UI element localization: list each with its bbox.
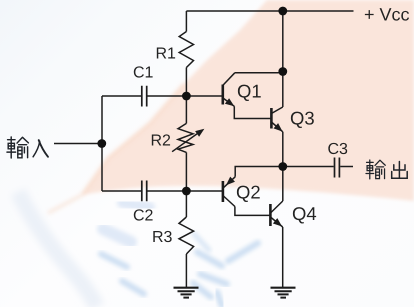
wire: top rail bbox=[186, 10, 353, 12]
resistor R2 (variable) bbox=[178, 123, 193, 152]
Q4 emitter arrow bbox=[273, 218, 282, 226]
wire: node to Q2 base bbox=[186, 190, 222, 192]
peach swoosh background bbox=[82, 0, 414, 201]
transistor Q3 bbox=[270, 108, 273, 129]
ground (right, under Q4) bbox=[271, 288, 296, 298]
CJK glyph 輸 (output) bbox=[366, 160, 385, 179]
arrowheads bbox=[195, 98, 283, 226]
CJK glyph 入 (input) bbox=[33, 140, 48, 157]
svg-text:+ Vcc: + Vcc bbox=[364, 5, 410, 25]
wire: R2 top lead bbox=[185, 96, 187, 123]
capacitor C3 bbox=[335, 158, 340, 178]
junction node: C2/R2/R3 bbox=[182, 187, 191, 196]
svg-text:R1: R1 bbox=[156, 46, 177, 63]
CJK glyph 輸 (input) bbox=[7, 137, 28, 158]
capacitor C1 bbox=[142, 86, 147, 107]
ground (left, under R3) bbox=[174, 288, 199, 298]
capacitor C2 bbox=[142, 181, 147, 202]
wire: Q3 emitter to output node bbox=[282, 132, 284, 167]
wire: R3 bottom lead bbox=[185, 254, 187, 287]
wire: Q4 collector to output node bbox=[282, 167, 284, 202]
wire: R1 bottom lead bbox=[185, 68, 187, 97]
wire: R2 bottom lead bbox=[185, 152, 187, 191]
svg-text:Q2: Q2 bbox=[236, 182, 261, 203]
wire: C1 left lead from bus bbox=[102, 95, 141, 97]
resistor R3 bbox=[179, 217, 194, 254]
junction node: output bbox=[278, 162, 287, 171]
wire: Q2 collector to Q4 base bbox=[235, 207, 271, 216]
wire: C2 right lead to node bbox=[148, 190, 187, 192]
background watermark: curved blue band bottom-left bbox=[18, 192, 97, 307]
resistor R1 bbox=[179, 32, 193, 68]
junction node: C1/R1/R2 bbox=[182, 92, 191, 101]
svg-text:C1: C1 bbox=[133, 65, 154, 82]
wire: main vertical (Vcc to Q3 collector) bbox=[282, 11, 284, 107]
R2 arrow bbox=[172, 131, 201, 152]
wire: Q2 emitter to output node line bbox=[235, 167, 283, 177]
Q3 emitter arrow bbox=[274, 123, 283, 132]
wire: output node to C3 bbox=[283, 166, 334, 168]
background watermark: blue starburst strokes bbox=[101, 234, 258, 306]
svg-text:C3: C3 bbox=[328, 141, 349, 158]
svg-text:Q4: Q4 bbox=[292, 203, 317, 224]
wire: R3 top lead bbox=[185, 191, 187, 217]
transistor Q2 bbox=[222, 181, 225, 202]
svg-text:R2: R2 bbox=[151, 133, 172, 150]
wire: C1 right lead to node bbox=[148, 95, 187, 97]
Q1 emitter arrow bbox=[225, 98, 234, 106]
svg-text:Q3: Q3 bbox=[290, 108, 315, 129]
background watermark: big pale blue capsule bbox=[103, 203, 150, 242]
wire: C2 left lead bbox=[102, 190, 141, 192]
wire: node to Q1 base bbox=[186, 95, 222, 97]
svg-text:Q1: Q1 bbox=[237, 81, 262, 102]
wire: R1 top lead bbox=[185, 11, 187, 32]
junction node: Q1 collector bbox=[278, 67, 287, 76]
junction node: input bus bbox=[97, 139, 106, 148]
junction node: top rail bbox=[278, 7, 287, 16]
wire: Q1 emitter to Q3 base bbox=[234, 106, 271, 118]
wire: C3 right lead bbox=[340, 166, 353, 168]
wire: left input bus bbox=[101, 96, 103, 191]
peach tail wisp bbox=[48, 195, 82, 213]
wire: input lead bbox=[54, 143, 102, 145]
Q2 emitter arrow (PNP, points to bar) bbox=[226, 177, 235, 186]
svg-text:C2: C2 bbox=[133, 208, 154, 225]
R2 arrow head bbox=[195, 129, 204, 137]
svg-text:R3: R3 bbox=[152, 229, 173, 246]
transistor Q1 bbox=[222, 85, 225, 105]
peach swoosh soft edge bbox=[82, 84, 184, 195]
CJK glyph 出 (output) bbox=[392, 162, 408, 179]
wire: Q1 collector to rail bbox=[235, 72, 283, 74]
wire: Q4 emitter to ground bbox=[282, 227, 284, 287]
transistor Q4 bbox=[269, 204, 272, 226]
